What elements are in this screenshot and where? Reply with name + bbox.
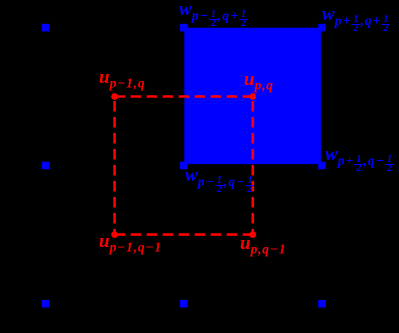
node w grid marker bottom-left (42, 300, 50, 308)
label u p,q (244, 70, 274, 92)
label w p+1/2,q+1/2 (322, 5, 390, 34)
node w grid marker bottom-middle (180, 300, 188, 308)
node u p-1,q-1 dot (111, 231, 118, 238)
node w grid marker bottom-right (318, 300, 326, 308)
label w p+1/2,q-1/2 (325, 145, 394, 174)
node u p,q-1 dot (249, 231, 256, 238)
node w grid marker mid-right (318, 162, 326, 170)
cell fill (blue square) (184, 28, 321, 164)
node w grid marker mid-left (42, 162, 50, 170)
node w grid marker top-right (318, 24, 326, 32)
dashed line bottom (115, 233, 253, 236)
node w grid marker top-left (42, 24, 50, 32)
dashed line left (113, 97, 116, 235)
label w p-1/2,q+1/2 (179, 0, 248, 29)
label u p,q-1 (240, 234, 286, 256)
node u p,q dot (249, 93, 256, 100)
label u p-1,q (99, 68, 145, 90)
node w grid marker mid-middle (180, 162, 188, 170)
dashed line right (252, 97, 255, 235)
label w p-1/2,q-1/2 (185, 166, 254, 195)
node u p-1,q dot (111, 93, 118, 100)
label u p-1,q-1 (99, 232, 162, 254)
dashed line top (115, 95, 253, 98)
node w grid marker top-middle (180, 24, 188, 32)
